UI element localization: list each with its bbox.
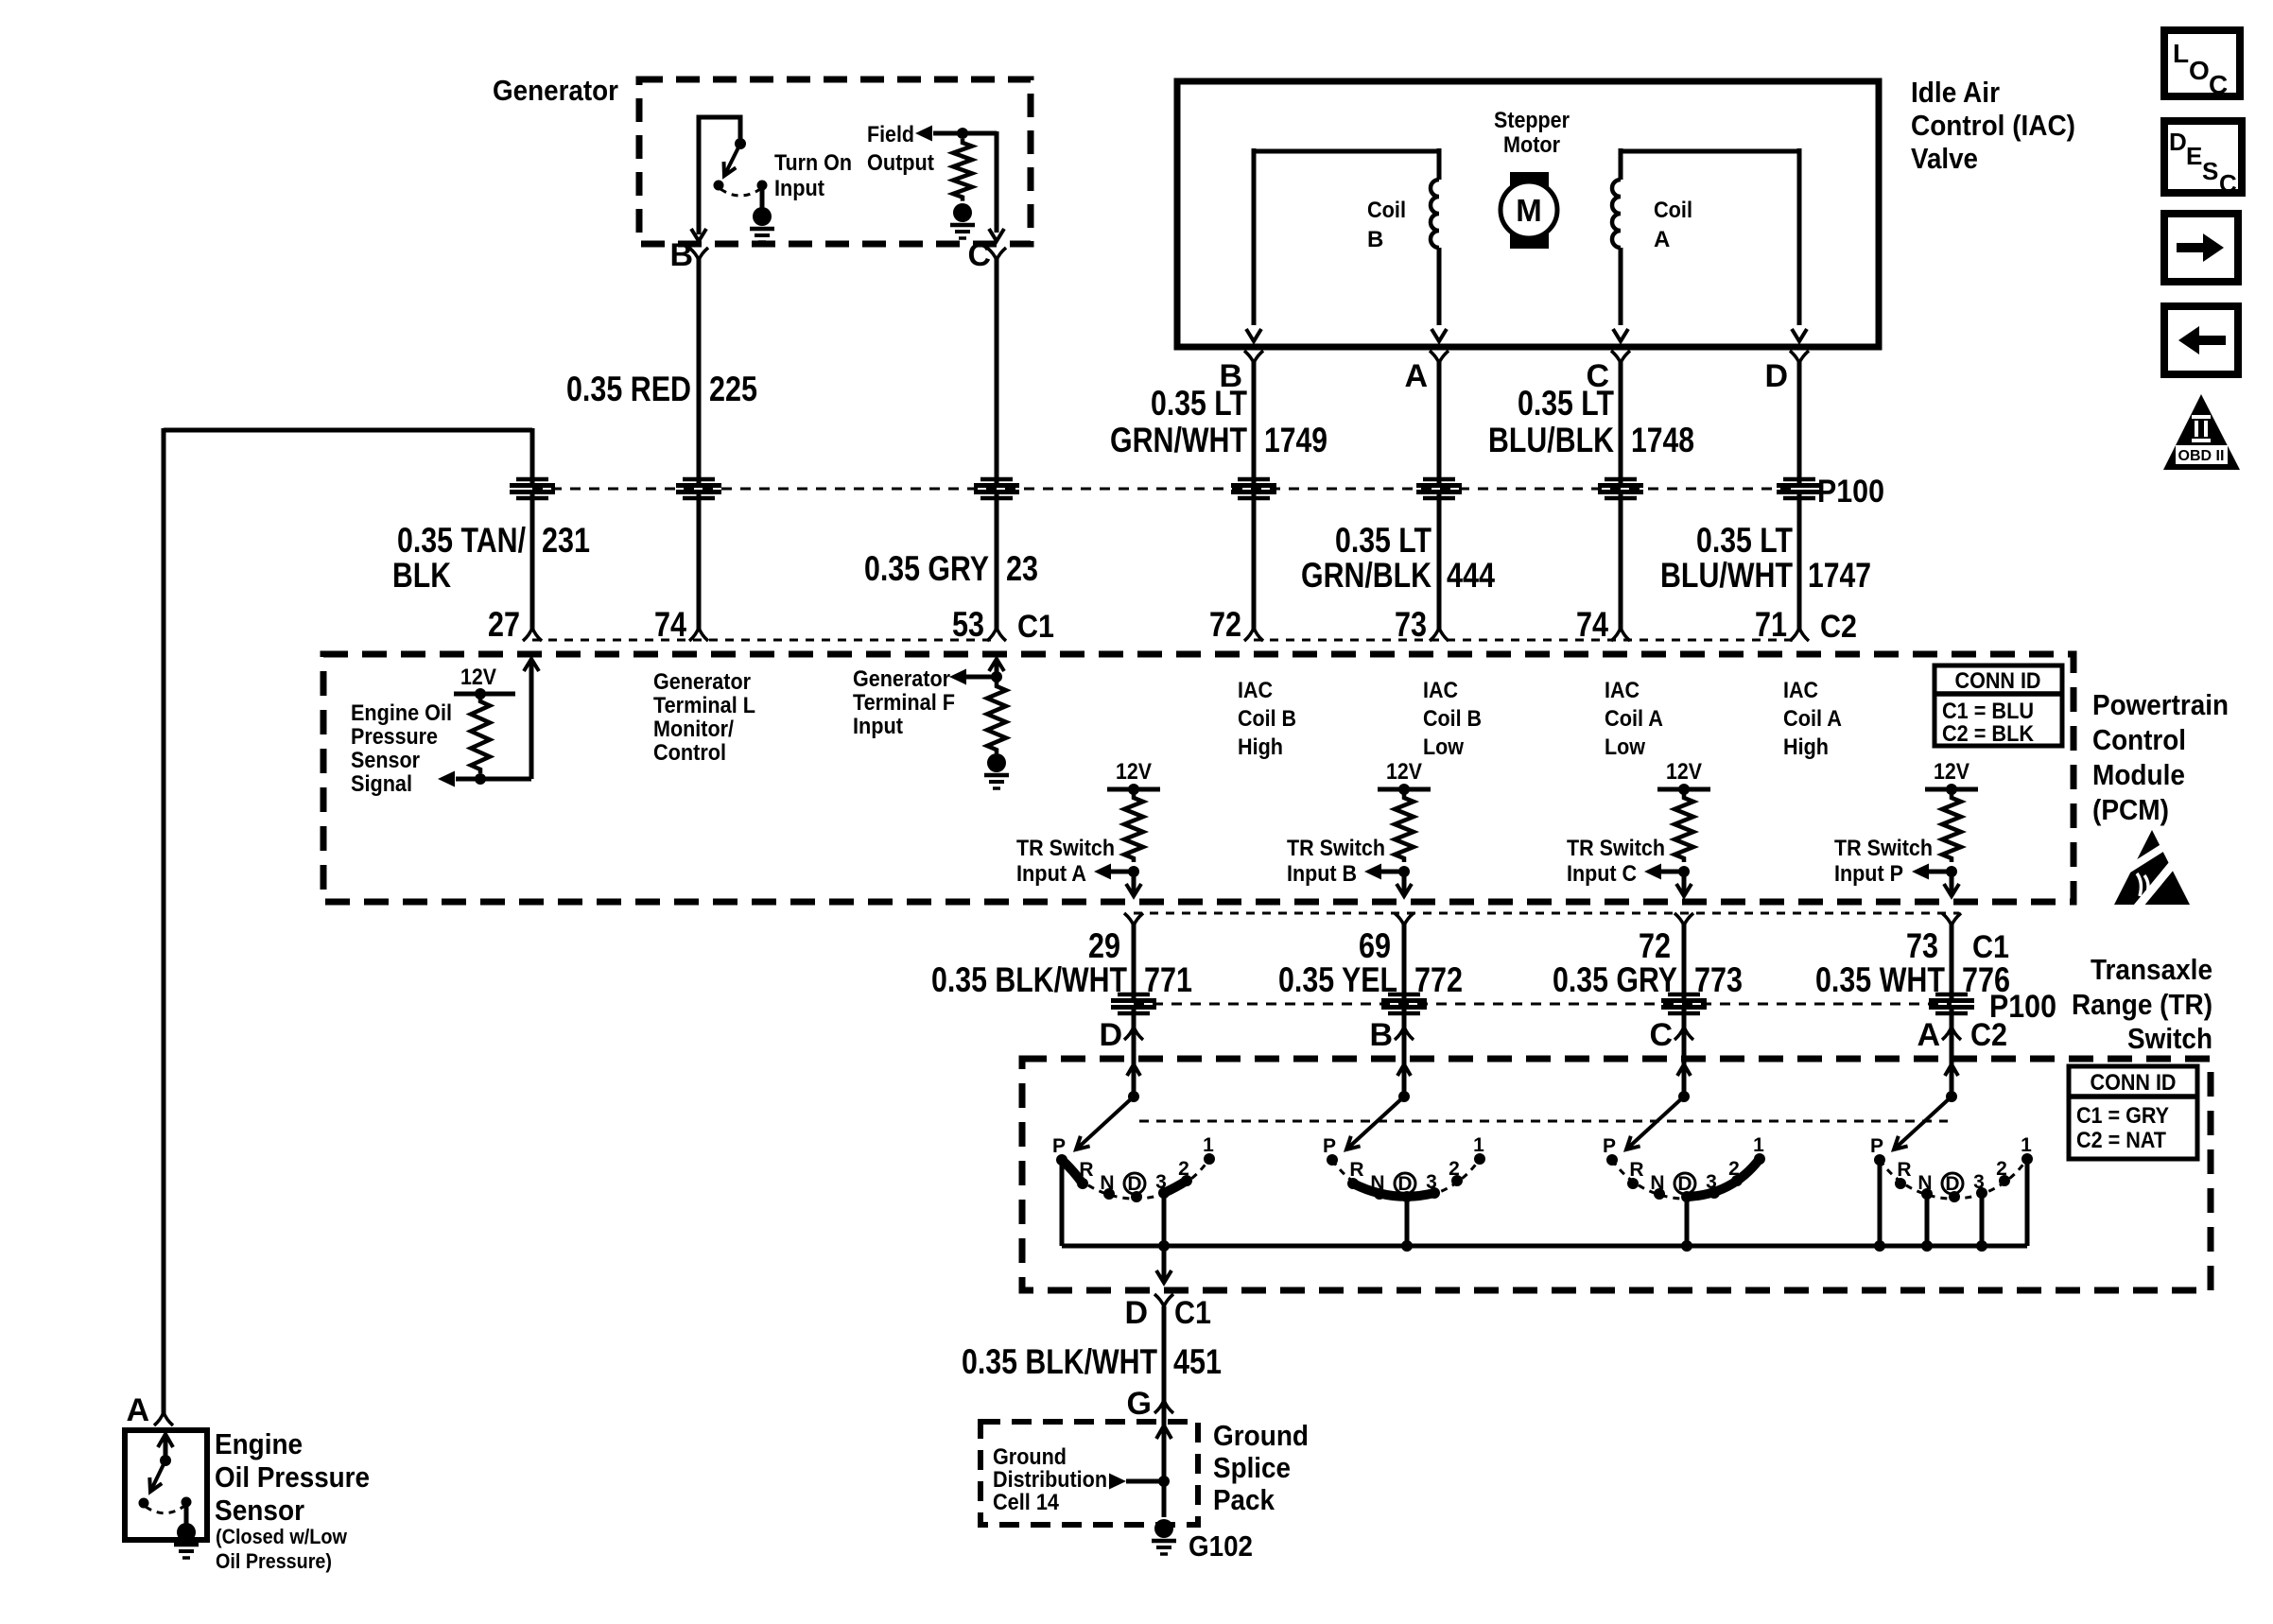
arrow EOP signal (up into pin 27) — [524, 659, 539, 671]
svg-text:G102: G102 — [1189, 1529, 1253, 1563]
label Generator Terminal F Input — [853, 666, 955, 739]
svg-text:GRN/WHT: GRN/WHT — [1110, 421, 1247, 459]
svg-text:BLU/BLK: BLU/BLK — [1488, 421, 1614, 459]
label IAC Coil A High — [1783, 678, 1842, 760]
resistor TR switch input P pull-up (12V) with arrows — [1834, 759, 1978, 896]
label C1 (lower connector) — [1972, 929, 2009, 965]
splice connector on BLK/WHT wire — [1111, 994, 1156, 1013]
label Ground Distribution Cell 14 — [993, 1444, 1107, 1515]
switch generator turn-on (movable arm) — [724, 138, 747, 176]
svg-text:Pack: Pack — [1213, 1483, 1275, 1516]
label 0.35 LT GRN/BLK 444 — [1301, 521, 1495, 595]
svg-text:Oil Pressure): Oil Pressure) — [216, 1549, 332, 1573]
svg-text:2: 2 — [1178, 1158, 1189, 1180]
label 0.35 LT GRN/WHT 1749 — [1110, 384, 1327, 459]
wire / engine oil pressure sensor signal net (0.35 TAN/BLK 231) horizontal run — [164, 428, 532, 433]
svg-text:A: A — [1917, 1017, 1940, 1053]
label 0.35 LT BLU/WHT 1747 — [1660, 521, 1871, 595]
wire sensor arm feed — [164, 1434, 168, 1460]
svg-text:2: 2 — [1449, 1158, 1460, 1180]
wire EOP signal up to pin 27 — [529, 662, 534, 779]
arrow IAC B exit — [1246, 329, 1261, 341]
arrow splice pack entry (up) — [1156, 1425, 1171, 1439]
svg-text:Control (IAC): Control (IAC) — [1911, 109, 2075, 142]
pin G of ground splice pack — [1127, 1386, 1173, 1422]
wire switch-1 P contact drop to bus — [1060, 1160, 1065, 1246]
wire harness dashed run P100 — [532, 488, 1799, 491]
svg-text:C2 = NAT: C2 = NAT — [2076, 1128, 2166, 1153]
svg-text:C: C — [2219, 169, 2237, 198]
svg-text:0.35 LT: 0.35 LT — [1518, 384, 1614, 423]
label C2 (PCM connector) — [1820, 609, 1857, 645]
node 12V rail junction (EOP) — [475, 688, 486, 700]
svg-text:S: S — [2202, 157, 2218, 185]
svg-text:12V: 12V — [460, 665, 496, 690]
svg-text:CONN ID: CONN ID — [1955, 668, 2041, 694]
svg-text:TR Switch: TR Switch — [1016, 836, 1115, 861]
svg-text:231: 231 — [542, 521, 590, 560]
arrow EOP signal (left) — [438, 771, 455, 787]
svg-text:OBD II: OBD II — [2178, 448, 2225, 464]
svg-text:P: P — [1323, 1135, 1336, 1157]
svg-text:E: E — [2186, 142, 2202, 170]
symbol ESD-sensitive device (triangle with hand) — [2111, 830, 2190, 911]
svg-text:P100: P100 — [1817, 474, 1884, 510]
wire dashed switch throw arc — [720, 189, 760, 196]
svg-text:1747: 1747 — [1808, 556, 1871, 595]
node sensor right contact — [182, 1497, 192, 1508]
arrow terminal F (left) — [949, 669, 966, 685]
arrow generator C exit (down) — [989, 229, 1004, 241]
wire field output horizontal — [933, 131, 997, 136]
connector face line C1 (TR side) — [1134, 912, 1959, 915]
icon LOC box — [2164, 30, 2240, 99]
label Engine Oil Pressure Sensor Signal — [351, 700, 452, 797]
svg-text:Engine Oil: Engine Oil — [351, 700, 452, 726]
wire right contact to ground — [760, 185, 765, 209]
wire into ground splice pack — [1162, 1403, 1167, 1517]
wire generator C internal drop — [995, 131, 999, 233]
wire GRN/WHT splice to PCM pin — [1252, 494, 1257, 629]
label P100 (lower) — [1989, 989, 2056, 1025]
motor M stepper motor symbol — [1501, 172, 1557, 249]
wire generator internal L-feed to switch — [699, 117, 740, 234]
resistor generator terminal F input — [987, 682, 1006, 753]
svg-text:L: L — [2173, 39, 2189, 68]
svg-text:2: 2 — [1996, 1158, 2007, 1180]
label C2 (TR connector) — [1970, 1017, 2007, 1053]
svg-text:0.35 LT: 0.35 LT — [1696, 521, 1793, 560]
idle air control valve box — [1177, 81, 1879, 347]
pin 74 of PCM C2 — [1576, 605, 1630, 644]
svg-text:Valve: Valve — [1911, 142, 1978, 175]
svg-text:Coil B: Coil B — [1423, 706, 1482, 732]
node TR bus exit junction — [1158, 1240, 1170, 1252]
svg-text:Terminal L: Terminal L — [653, 693, 755, 718]
svg-text:Control: Control — [653, 740, 726, 766]
transaxle range switch dashed box — [1022, 1059, 2211, 1290]
svg-text:C1: C1 — [1174, 1295, 1211, 1331]
icon DESC box — [2164, 121, 2242, 198]
wire TAN/BLK splice to PCM pin — [530, 494, 535, 629]
svg-text:R: R — [1079, 1159, 1093, 1181]
label Ground Splice Pack — [1213, 1419, 1309, 1516]
svg-text:Signal: Signal — [351, 771, 412, 797]
label 0.35 GRY 773 — [1553, 960, 1743, 999]
powertrain control module dashed box — [323, 654, 2073, 902]
svg-text:O: O — [2189, 56, 2210, 85]
svg-text:C: C — [1649, 1017, 1673, 1053]
wire 0.35 LT BLU/BLK 1748 IAC C to splice — [1619, 359, 1623, 483]
svg-text:0.35 TAN/: 0.35 TAN/ — [397, 521, 526, 560]
label Stepper Motor — [1494, 108, 1570, 158]
svg-text:3: 3 — [1706, 1171, 1717, 1193]
svg-text:Coil A: Coil A — [1605, 706, 1663, 732]
svg-text:M: M — [1516, 193, 1542, 228]
svg-text:71: 71 — [1755, 605, 1787, 644]
wire coil A loop top — [1621, 149, 1799, 154]
arrow TR exit (down) — [1156, 1270, 1171, 1283]
svg-text:N: N — [1650, 1172, 1664, 1194]
wire BLU/BLK splice to PCM pin — [1619, 494, 1623, 629]
pin D of IAC valve — [1764, 351, 1809, 394]
wire 0.35 YEL PCM to TR splice — [1402, 924, 1407, 998]
svg-text:1748: 1748 — [1631, 421, 1694, 459]
svg-text:Sensor: Sensor — [351, 748, 420, 773]
svg-text:Field: Field — [867, 122, 914, 147]
svg-text:0.35 YEL: 0.35 YEL — [1278, 960, 1397, 999]
label Coil B — [1367, 198, 1406, 252]
pin 53 of PCM C1 — [952, 605, 1006, 644]
wire 0.35 WHT splice to TR switch — [1950, 1010, 1954, 1098]
pin 74 of PCM C1 — [654, 605, 708, 644]
wire 0.35 GRY PCM to TR splice — [1682, 924, 1687, 998]
svg-text:Switch: Switch — [2127, 1022, 2212, 1055]
svg-text:451: 451 — [1173, 1342, 1222, 1381]
arrow IAC D exit — [1792, 329, 1807, 341]
svg-text:N: N — [1100, 1172, 1114, 1194]
svg-text:29: 29 — [1088, 926, 1120, 965]
svg-text:Input: Input — [853, 714, 903, 739]
wire terminal F vertical — [995, 662, 999, 682]
svg-text:773: 773 — [1694, 960, 1743, 999]
arrow generator B exit (down) — [691, 229, 706, 241]
svg-text:1749: 1749 — [1264, 421, 1327, 459]
splice connector on RED wire — [676, 479, 721, 498]
svg-text:TR Switch: TR Switch — [1834, 836, 1933, 861]
label 0.35 LT BLU/BLK 1748 — [1488, 384, 1694, 459]
switch TR rotary contact set (pin B / input B) — [1323, 1059, 1485, 1252]
wire 0.35 LT GRN/WHT 1749 IAC B to splice — [1252, 359, 1257, 483]
wire 0.35 BLK/WHT splice to TR switch — [1132, 1010, 1136, 1098]
svg-text:1: 1 — [1473, 1134, 1484, 1156]
table CONN ID (PCM) C1=BLU C2=BLK — [1935, 665, 2062, 747]
svg-text:D: D — [1764, 358, 1788, 394]
svg-text:High: High — [1783, 734, 1829, 760]
svg-text:Splice: Splice — [1213, 1451, 1291, 1484]
svg-text:Sensor: Sensor — [215, 1494, 304, 1527]
wire BLU/WHT splice to PCM pin — [1797, 494, 1802, 629]
switch TR rotary contact set (pin C / input C) — [1603, 1059, 1765, 1252]
pin 69 of PCM C1 (TR inputs) — [1359, 913, 1414, 965]
pin C of generator — [967, 237, 1006, 273]
svg-text:Coil: Coil — [1367, 198, 1406, 223]
svg-text:74: 74 — [1576, 605, 1608, 644]
svg-text:IAC: IAC — [1783, 678, 1818, 703]
svg-text:444: 444 — [1447, 556, 1495, 595]
svg-text:N: N — [1917, 1172, 1932, 1194]
label 0.35 GRY 23 — [864, 549, 1038, 588]
pin A of TR switch — [1917, 1017, 1961, 1053]
svg-text:Cell 14: Cell 14 — [993, 1490, 1060, 1515]
arrow IAC C exit — [1613, 329, 1628, 341]
ground splice pack dashed box — [980, 1422, 1198, 1525]
svg-text:Input: Input — [774, 176, 824, 201]
wire harness dashed run P100 (lower) — [1134, 1003, 1952, 1006]
splice connector on GRY wire — [1661, 994, 1707, 1013]
wire / far-left vertical run to oil pressure sensor — [162, 428, 166, 1413]
svg-text:72: 72 — [1639, 926, 1671, 965]
arrow ground distribution (right) — [1109, 1474, 1126, 1490]
svg-text:D: D — [1099, 1017, 1122, 1053]
svg-text:69: 69 — [1359, 926, 1391, 965]
svg-text:TR Switch: TR Switch — [1287, 836, 1385, 861]
ground (generator field) — [950, 203, 975, 238]
table CONN ID (TR) C1=GRY C2=NAT — [2069, 1066, 2197, 1159]
svg-text:Input C: Input C — [1567, 861, 1637, 887]
svg-text:High: High — [1238, 734, 1283, 760]
svg-text:CONN ID: CONN ID — [2091, 1070, 2177, 1096]
svg-text:TR Switch: TR Switch — [1567, 836, 1665, 861]
svg-text:R: R — [1349, 1159, 1363, 1181]
arrow field output (left) — [915, 126, 932, 142]
label 0.35 BLK/WHT 451 — [962, 1342, 1222, 1381]
label Generator — [493, 74, 618, 107]
svg-text:0.35 GRY: 0.35 GRY — [1553, 960, 1677, 999]
ground (generator turn-on input) — [750, 207, 774, 242]
wire GRN/BLK splice to PCM pin — [1437, 494, 1442, 629]
wire terminal F horizontal — [966, 675, 997, 680]
pin C of TR switch — [1649, 1017, 1693, 1053]
splice connector on YEL wire — [1381, 994, 1427, 1013]
pin 29 of PCM C1 (TR inputs) — [1088, 913, 1143, 965]
label G102 — [1189, 1529, 1253, 1563]
svg-text:A: A — [126, 1392, 149, 1428]
svg-text:12V: 12V — [1934, 759, 1969, 785]
wire 12V rail (EOP) — [454, 692, 515, 697]
svg-text:53: 53 — [952, 605, 984, 644]
wire 0.35 BLK/WHT PCM to TR splice — [1132, 924, 1136, 998]
inductor coil A winding — [1612, 180, 1621, 248]
wire coil B left leg — [1252, 148, 1257, 325]
wire 0.35 TAN/BLK 231 drop to splice — [530, 428, 535, 483]
wire coil A right leg — [1797, 148, 1802, 325]
splice connector on LT GRN/BLK wire — [1416, 479, 1462, 498]
wire 0.35 BLK/WHT 451 to splice pack — [1162, 1306, 1167, 1403]
svg-text:A: A — [1404, 358, 1428, 394]
wire TR exit drop — [1162, 1246, 1167, 1279]
pin B of TR switch — [1369, 1017, 1414, 1053]
resistor TR switch input B pull-up (12V) with arrows — [1287, 759, 1431, 896]
svg-text:1: 1 — [2021, 1134, 2032, 1156]
switch oil pressure sensor (movable arm) — [149, 1455, 171, 1492]
wire TR common bus — [1062, 1244, 2027, 1249]
wire coil A left leg lower — [1619, 248, 1623, 325]
svg-text:74: 74 — [654, 605, 686, 644]
label 0.35 TAN/BLK 231 — [392, 521, 590, 595]
svg-text:0.35 RED: 0.35 RED — [566, 370, 691, 408]
pin B of generator — [669, 237, 708, 273]
label P100 (upper) — [1817, 474, 1884, 510]
pin 27 of PCM C1 — [488, 605, 542, 644]
svg-text:Motor: Motor — [1503, 132, 1560, 158]
node sensor left contact — [139, 1498, 149, 1509]
svg-text:12V: 12V — [1666, 759, 1702, 785]
wire coil B right leg lower — [1437, 248, 1442, 325]
svg-text:1: 1 — [1753, 1134, 1764, 1156]
svg-text:0.35 WHT: 0.35 WHT — [1815, 960, 1945, 999]
svg-text:Input A: Input A — [1016, 861, 1086, 887]
wire sensor contact to ground — [184, 1502, 189, 1524]
arrow IAC A exit — [1431, 329, 1447, 341]
label (Closed w/Low Oil Pressure) — [216, 1525, 348, 1573]
svg-text:B: B — [669, 237, 693, 273]
svg-text:IAC: IAC — [1423, 678, 1458, 703]
connector face line C1 (PCM left) — [532, 639, 997, 642]
splice connector on WHT wire — [1929, 994, 1974, 1013]
label 0.35 YEL 772 — [1278, 960, 1463, 999]
svg-text:Idle Air: Idle Air — [1911, 76, 2000, 109]
svg-text:B: B — [1369, 1017, 1393, 1053]
wire 0.35 RED 225 generator B to splice — [697, 257, 702, 483]
svg-text:C1 = BLU: C1 = BLU — [1942, 699, 2034, 724]
wire 0.35 GRY 23 generator C to splice — [995, 257, 999, 483]
pin D of TR switch C1 exit — [1124, 1294, 1211, 1331]
svg-text:Ground: Ground — [993, 1444, 1067, 1470]
label 0.35 WHT 776 — [1815, 960, 2010, 999]
svg-text:Oil Pressure: Oil Pressure — [215, 1460, 370, 1494]
svg-text:Input P: Input P — [1834, 861, 1903, 887]
wire 0.35 GRY splice to TR switch — [1682, 1010, 1687, 1098]
node EOP resistor output — [475, 773, 486, 785]
pin A of oil pressure sensor — [126, 1392, 173, 1428]
icon back arrow box — [2164, 306, 2238, 374]
svg-text:C: C — [967, 237, 991, 273]
pin 73 of PCM C1 (TR inputs) — [1906, 913, 1961, 965]
label 12V (EOP pull-up) — [460, 665, 496, 690]
label Generator Terminal L Monitor/Control — [653, 669, 755, 766]
pin D of TR switch — [1099, 1017, 1143, 1053]
pin 73 of PCM C2 — [1395, 605, 1449, 644]
svg-text:C: C — [2209, 70, 2228, 99]
splice connector on TAN/BLK wire — [510, 479, 555, 498]
wire ground distribution stub — [1126, 1479, 1164, 1484]
svg-text:P: P — [1052, 1135, 1066, 1157]
svg-text:23: 23 — [1006, 549, 1038, 588]
svg-text:R: R — [1897, 1159, 1911, 1181]
pin 72 of PCM C2 — [1209, 605, 1263, 644]
node field output junction — [957, 128, 968, 139]
resistor TR switch input A pull-up (12V) with arrows — [1016, 759, 1160, 896]
splice connector on GRY wire — [974, 479, 1019, 498]
svg-text:772: 772 — [1414, 960, 1463, 999]
resistor TR switch input C pull-up (12V) with arrows — [1567, 759, 1710, 896]
switch TR rotary contact set (pin D / input A) — [1052, 1059, 1215, 1202]
node terminal F junction — [991, 671, 1002, 682]
svg-text:P: P — [1870, 1135, 1883, 1157]
label C1 (PCM connector) — [1017, 609, 1054, 645]
svg-text:Stepper: Stepper — [1494, 108, 1570, 133]
svg-text:Ground: Ground — [1213, 1419, 1309, 1452]
svg-text:P: P — [1603, 1135, 1616, 1157]
svg-text:Distribution: Distribution — [993, 1467, 1107, 1493]
svg-text:Generator: Generator — [653, 669, 751, 695]
svg-text:Input B: Input B — [1287, 861, 1357, 887]
svg-text:Transaxle: Transaxle — [2091, 953, 2212, 986]
generator dashed enclosure box — [639, 79, 1031, 244]
svg-text:73: 73 — [1906, 926, 1938, 965]
label IAC Coil B Low — [1423, 678, 1482, 760]
node generator switch right contact — [757, 181, 768, 191]
arrow sensor output (up) — [158, 1434, 173, 1447]
svg-text:73: 73 — [1395, 605, 1427, 644]
icon OBD II triangle — [2163, 394, 2240, 470]
wire switch-1 contact-3 drop to exit — [1162, 1193, 1167, 1246]
svg-text:Coil A: Coil A — [1783, 706, 1842, 732]
svg-text:IAC: IAC — [1605, 678, 1640, 703]
svg-text:Low: Low — [1605, 734, 1645, 760]
svg-text:0.35 BLK/WHT: 0.35 BLK/WHT — [931, 960, 1127, 999]
label 0.35 BLK/WHT 771 — [931, 960, 1192, 999]
splice connector on LT BLU/WHT wire — [1777, 479, 1822, 498]
pin B of IAC valve — [1219, 351, 1263, 394]
svg-text:0.35 LT: 0.35 LT — [1151, 384, 1247, 423]
svg-text:1: 1 — [1203, 1134, 1214, 1156]
pin 72 of PCM C1 (TR inputs) — [1639, 913, 1693, 965]
svg-text:D: D — [1124, 1295, 1148, 1331]
ground (oil pressure sensor case) — [174, 1523, 199, 1558]
wire 0.35 YEL splice to TR switch — [1402, 1010, 1407, 1098]
label Transaxle Range (TR) Switch — [2072, 953, 2212, 1055]
node splice pack junction — [1158, 1476, 1170, 1487]
svg-text:Coil: Coil — [1654, 198, 1692, 223]
wire rotary linkage dashed line — [1139, 1120, 1948, 1123]
svg-text:225: 225 — [709, 370, 757, 408]
icon forward arrow box — [2164, 214, 2238, 282]
label IAC Coil A Low — [1605, 678, 1663, 760]
label 0.35 RED 225 — [566, 370, 757, 408]
arrow generator terminal F (up to pin 53) — [989, 659, 1004, 671]
svg-text:771: 771 — [1144, 960, 1192, 999]
svg-text:R: R — [1629, 1159, 1643, 1181]
svg-text:C2: C2 — [1970, 1017, 2007, 1053]
svg-text:Pressure: Pressure — [351, 724, 438, 750]
wire dashed sensor throw arc — [146, 1506, 184, 1513]
svg-text:Powertrain: Powertrain — [2092, 688, 2229, 721]
label Powertrain Control Module (PCM) — [2092, 688, 2229, 826]
wire coil A left leg upper — [1619, 148, 1623, 180]
svg-text:Module: Module — [2092, 758, 2185, 791]
svg-text:Control: Control — [2092, 723, 2186, 756]
ground (terminal F internal) — [984, 753, 1009, 788]
engine oil pressure sensor box — [125, 1430, 207, 1540]
svg-text:Turn On: Turn On — [774, 150, 852, 176]
svg-text:Generator: Generator — [493, 74, 618, 107]
svg-text:B: B — [1367, 227, 1383, 252]
svg-text:0.35 GRY: 0.35 GRY — [864, 549, 989, 588]
label Engine Oil Pressure Sensor — [215, 1427, 370, 1527]
svg-text:(Closed w/Low: (Closed w/Low — [216, 1525, 348, 1548]
